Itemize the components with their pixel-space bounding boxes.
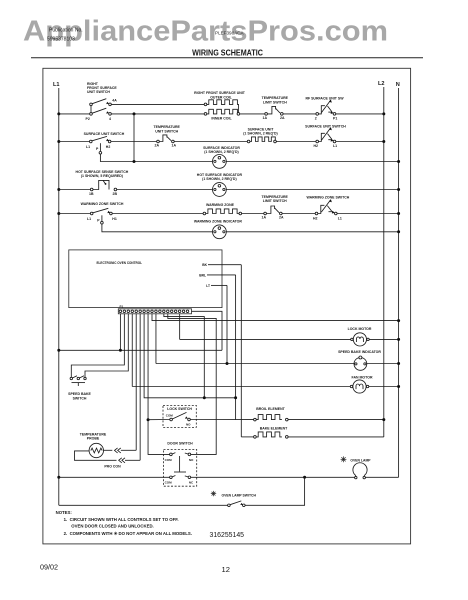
junction N row E (397, 188, 400, 191)
junction lamp switch tap (303, 476, 306, 479)
wire terminal 1 drop (119, 314, 121, 351)
wire L1 to door lower COM (59, 476, 170, 478)
lamp warming zone indicator (194, 220, 243, 239)
wire row A (111, 103, 205, 105)
wire speed bake indicator row (156, 363, 354, 365)
junction latch feed (147, 418, 150, 421)
svg-text:RIGHT FRONT SURFACE UNIT: RIGHT FRONT SURFACE UNIT (194, 91, 246, 95)
svg-text:(1 SHOWN, 2 REQ'D): (1 SHOWN, 2 REQ'D) (243, 132, 277, 136)
schematic border frame (43, 68, 411, 544)
junction L2 row B (382, 112, 385, 115)
junction L2 broil (382, 418, 385, 421)
junction L2 row C (382, 140, 385, 143)
wire temp unit switch to surface unit (174, 141, 247, 143)
svg-text:(1 SHOWN, 5 REQUIRED): (1 SHOWN, 5 REQUIRED) (81, 174, 123, 178)
wire L1 to warming switch (59, 213, 91, 215)
svg-text:NOTES:: NOTES: (56, 510, 73, 515)
wire terminal 5 drop to probe (135, 314, 137, 451)
svg-text:UNIT SWITCH: UNIT SWITCH (155, 129, 178, 133)
junction terminal 1 (119, 349, 122, 352)
wire warming switch to coil (112, 213, 203, 215)
heater warming zone element (203, 203, 242, 215)
svg-text:LIMIT SWITCH: LIMIT SWITCH (263, 199, 287, 203)
svg-text:2A: 2A (279, 216, 284, 220)
switch speed bake switch (68, 376, 91, 401)
motor fan motor (350, 375, 373, 393)
wire door NO to EOC terminal 13 (168, 314, 216, 455)
switch RF surface unit sw (305, 97, 344, 121)
wire coils to limit switch (240, 113, 265, 115)
svg-text:NO: NO (186, 422, 191, 426)
wire fan motor row (132, 386, 351, 388)
junction L1 feed (57, 349, 60, 352)
switch oven lamp switch (211, 491, 257, 507)
junction lock feed row (203, 396, 206, 399)
wire terminal 2 drop to speed bake switch (71, 314, 124, 377)
wire LT vertical (226, 285, 228, 363)
svg-text:OVEN LAMP SWITCH: OVEN LAMP SWITCH (222, 493, 257, 497)
svg-text:SWITCH: SWITCH (73, 397, 87, 401)
svg-text:SURFACE UNIT SWITCH: SURFACE UNIT SWITCH (84, 132, 125, 136)
junction L1 row E (57, 188, 60, 191)
wire terminal 9 drop to N row (152, 314, 399, 321)
L1 bus wire (58, 88, 60, 505)
wire row C to temp unit switch (111, 141, 157, 143)
switch surface unit switch (left, row C) (84, 132, 125, 151)
junction L1 row C (57, 140, 60, 143)
thermostat temperature limit switch (row F) (262, 195, 289, 220)
wire switch2 to L2 (336, 141, 384, 143)
svg-text:L1: L1 (86, 145, 90, 149)
wire lock motor row (180, 338, 352, 340)
svg-text:H1: H1 (112, 217, 117, 221)
junction N row F (397, 212, 400, 215)
svg-text:SPEED BAKE: SPEED BAKE (68, 392, 91, 396)
junction N fan motor (397, 385, 400, 388)
svg-text:SURFACE UNIT SWITCH: SURFACE UNIT SWITCH (305, 125, 346, 129)
wire bake feed vertical (240, 265, 242, 437)
svg-text:5995378103: 5995378103 (47, 37, 75, 43)
wire row E to N (226, 189, 398, 191)
wire lock motor to N (369, 338, 398, 340)
lamp oven lamp (341, 456, 372, 478)
svg-text:2A: 2A (155, 144, 160, 148)
svg-text:BK: BK (202, 263, 207, 267)
wire surface unit to switch2 (276, 141, 316, 143)
svg-text:DOOR SWITCH: DOOR SWITCH (167, 442, 193, 446)
wire RF switch to L2 (336, 113, 384, 115)
svg-text:4: 4 (109, 117, 111, 121)
junction broil feed (234, 396, 237, 399)
wire lamp switch to lamp row (245, 477, 305, 505)
wire warming pilot drop (101, 215, 103, 221)
svg-text:BAKE ELEMENT: BAKE ELEMENT (260, 427, 288, 431)
svg-text:BRL: BRL (199, 273, 206, 277)
junction N row D (397, 160, 400, 163)
wire row B (111, 113, 205, 115)
wire L1 to lamp switch (59, 504, 228, 506)
svg-text:COM: COM (165, 481, 173, 485)
wire row D to N (226, 161, 398, 163)
svg-text:L2: L2 (378, 81, 385, 87)
wire terminal 4 drop to fan row (131, 314, 133, 387)
junction pilot row D (133, 160, 136, 163)
svg-text:WARMING ZONE INDICATOR: WARMING ZONE INDICATOR (194, 220, 243, 224)
svg-text:INNER COIL: INNER COIL (211, 116, 232, 120)
wire LT feed (211, 284, 227, 286)
svg-text:1A: 1A (172, 144, 177, 148)
svg-text:OVEN LAMP: OVEN LAMP (350, 459, 371, 463)
wire bake feed corner (241, 436, 253, 438)
svg-text:BROIL ELEMENT: BROIL ELEMENT (256, 407, 285, 411)
wire limit switch to warming switch 2 (282, 213, 315, 215)
svg-text:H2: H2 (106, 145, 111, 149)
wire pilot drop from surface unit switch (99, 143, 101, 151)
svg-text:COM: COM (165, 458, 173, 462)
svg-text:Publication No.: Publication No. (49, 28, 83, 34)
svg-text:L1: L1 (338, 216, 342, 220)
wire L1 feed row (59, 349, 222, 351)
wire terminal 16 drop to lock motor row (179, 314, 181, 340)
wire L1 to SW1 (59, 113, 90, 115)
lamp hot surface indicator (197, 173, 243, 196)
svg-text:WIRING SCHEMATIC: WIRING SCHEMATIC (192, 48, 263, 57)
lamp speed bake indicator (338, 350, 381, 370)
switch warming zone switch (right) (307, 195, 350, 220)
svg-text:09/02: 09/02 (40, 562, 58, 571)
svg-text:WARMING ZONE SWITCH: WARMING ZONE SWITCH (81, 202, 124, 206)
svg-text:12: 12 (222, 565, 230, 574)
wire coil to limit switch (242, 213, 264, 215)
motor lock motor (348, 327, 372, 346)
wire lamp to N terminus (365, 476, 398, 478)
svg-text:H2: H2 (314, 144, 319, 148)
wire door NC to lamp (191, 476, 355, 478)
svg-text:OUTER COIL: OUTER COIL (210, 95, 232, 99)
svg-text:L1: L1 (87, 217, 91, 221)
wire L1 to switch (59, 141, 90, 143)
connector P1 terminal strip (118, 305, 191, 314)
op-amp U1 electronic oven control box (69, 250, 222, 308)
svg-text:NC: NC (189, 481, 194, 485)
heater broil element (254, 407, 289, 421)
svg-text:WARMING ZONE: WARMING ZONE (206, 203, 235, 207)
svg-text:COM: COM (166, 413, 174, 417)
svg-text:316255145: 316255145 (210, 532, 245, 539)
wire terminal 10 drop to indicator row (155, 314, 157, 364)
svg-text:1. CIRCUIT SHOWN WITH ALL CON: 1. CIRCUIT SHOWN WITH ALL CONTROLS SET T… (64, 517, 179, 522)
wire broil feed vertical (235, 275, 237, 420)
svg-text:LOCK MOTOR: LOCK MOTOR (348, 327, 372, 331)
wire bake element to L2 terminus (288, 436, 384, 438)
svg-text:(1 SHOWN, 2 REQ'D): (1 SHOWN, 2 REQ'D) (204, 150, 238, 154)
switch hot surface sense switch (76, 170, 129, 196)
svg-text:2A: 2A (280, 116, 285, 120)
title underline (31, 57, 423, 59)
wire feed to latch COM (148, 419, 170, 421)
svg-text:4A: 4A (112, 99, 117, 103)
svg-text:RF SURFACE UNIT SW: RF SURFACE UNIT SW (305, 97, 344, 101)
svg-text:H2: H2 (313, 216, 318, 220)
resistor temperature probe (75, 432, 141, 468)
wire strip right end to L1 return (192, 311, 223, 350)
svg-text:PLEF398ACA: PLEF398ACA (215, 31, 245, 36)
wire indicator to N (367, 363, 399, 365)
svg-text:WARMING ZONE SWITCH: WARMING ZONE SWITCH (307, 195, 350, 199)
svg-text:SPEED BAKE INDICATOR: SPEED BAKE INDICATOR (338, 350, 381, 354)
svg-text:1A: 1A (262, 216, 267, 220)
svg-text:1B: 1B (89, 192, 94, 196)
lamp surface indicator (203, 146, 240, 168)
svg-text:P1: P1 (120, 305, 124, 309)
switch surface unit switch (right, row C) (305, 125, 346, 149)
wire terminal 8 drop to latch and door (148, 314, 170, 455)
svg-text:PROBE: PROBE (87, 437, 100, 441)
svg-text:(1 SHOWN, 2 REQ'D): (1 SHOWN, 2 REQ'D) (202, 177, 236, 181)
switch SW1 right front surface unit switch (DPST) (86, 82, 118, 121)
wire terminal 6 drop to probe (139, 314, 141, 461)
wire latch NO to broil element (190, 419, 253, 421)
heater surface unit coil (243, 127, 277, 143)
wire pilot tap vertical (133, 114, 135, 162)
wire L1 to sense switch (59, 189, 91, 191)
svg-text:P: P (96, 147, 99, 151)
switch latch switch (163, 405, 196, 427)
svg-text:OVEN DOOR CLOSED AND UNLOCKED.: OVEN DOOR CLOSED AND UNLOCKED. (71, 523, 153, 528)
wire terminal 3 drop to speed bake switch (85, 314, 128, 377)
svg-text:P2: P2 (86, 117, 90, 121)
L2 bus wire (383, 87, 385, 437)
svg-text:UNIT SWITCH: UNIT SWITCH (87, 90, 110, 94)
svg-text:ELECTRONIC OVEN CONTROL: ELECTRONIC OVEN CONTROL (97, 261, 143, 265)
wire BRL to broil feed (207, 274, 236, 276)
wire row G to N (226, 231, 398, 233)
thermostat temperature unit switch (row C) (154, 125, 181, 147)
junction LT on indicator row (226, 362, 229, 365)
junction N lock motor (397, 338, 400, 341)
svg-text:FAN MOTOR: FAN MOTOR (352, 375, 373, 379)
heater RF surface unit outer coil (194, 91, 246, 106)
wire fan motor to N (369, 386, 399, 388)
junction L1 lamp row (57, 476, 60, 479)
wire terminal 12 drop to lock feed junction (164, 314, 204, 398)
svg-text:2. COMPONENTS WITH ✳ DO NOT A: 2. COMPONENTS WITH ✳ DO NOT APPEAR ON AL… (64, 531, 192, 536)
heater RF surface unit inner coil (204, 104, 240, 120)
svg-text:2B: 2B (113, 192, 118, 196)
svg-text:L1: L1 (53, 82, 60, 88)
switch warming zone switch (left) (81, 202, 124, 223)
svg-text:LIMIT SWITCH: LIMIT SWITCH (263, 100, 287, 104)
svg-text:LOCK SWITCH: LOCK SWITCH (167, 407, 192, 411)
svg-text:P: P (97, 219, 100, 223)
notes text (56, 510, 192, 536)
junction N indicator row (397, 362, 400, 365)
svg-text:2: 2 (315, 117, 317, 121)
wire BK to bake feed (208, 264, 241, 266)
switch door switch (164, 442, 197, 487)
wire sense switch to indicator (117, 189, 213, 191)
svg-text:P1: P1 (333, 117, 337, 121)
svg-text:N: N (396, 82, 400, 88)
thermostat temperature limit switch (row B) (262, 96, 289, 120)
svg-text:1A: 1A (263, 116, 268, 120)
svg-text:PRO CON: PRO CON (104, 465, 121, 469)
junction N strip row (397, 319, 400, 322)
wire warming switch 2 to N (337, 213, 399, 215)
svg-text:L1: L1 (333, 144, 337, 148)
junction L1 row F (57, 212, 60, 215)
junction L1 row B (57, 112, 60, 115)
svg-text:LT: LT (206, 284, 210, 288)
heater bake element (254, 427, 289, 439)
wire broil element to L2 (288, 419, 384, 421)
wire terminal 7 drop to broil feed (144, 314, 236, 398)
junction row B pilot tap (133, 112, 136, 115)
wire limit switch to RF switch (283, 113, 316, 115)
N bus wire (398, 88, 400, 477)
svg-text:NO: NO (189, 458, 194, 462)
junction N row G (397, 230, 400, 233)
